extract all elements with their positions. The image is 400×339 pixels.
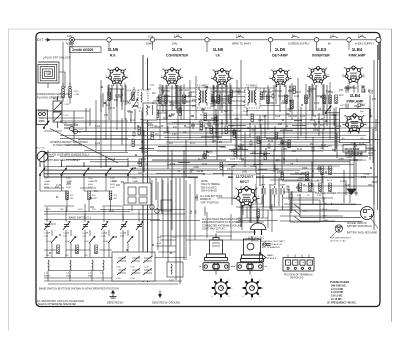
unused — [143, 103, 157, 129]
resistor bank row 1 values — [70, 195, 140, 200]
tube label U1 — [108, 47, 119, 57]
svg-text:R-24: R-24 — [202, 164, 208, 166]
svg-text:3.3M: 3.3M — [221, 103, 226, 105]
gear socket A — [212, 276, 233, 301]
svg-text:PWR.AMP: PWR.AMP — [349, 53, 367, 57]
wire loop to tube — [48, 72, 65, 88]
resistor bank row 2 — [57, 245, 98, 254]
svg-text:10K: 10K — [339, 90, 344, 92]
svg-text:1.5A: 1.5A — [174, 33, 180, 37]
svg-text:.0005: .0005 — [220, 147, 227, 149]
resistor R13 — [305, 95, 308, 104]
svg-text:1M: 1M — [281, 103, 284, 105]
tube socket U4 1LD5 — [269, 68, 291, 87]
loop antenna L-1 — [38, 56, 71, 83]
svg-text:C-9: C-9 — [362, 160, 366, 162]
inverter values — [300, 91, 332, 118]
wire rectifier outputs — [236, 197, 300, 224]
svg-text:2.2A: 2.2A — [358, 33, 364, 37]
svg-text:56K: 56K — [332, 150, 337, 152]
svg-text:T-1 456KC: T-1 456KC — [197, 85, 209, 88]
IF values — [213, 91, 249, 120]
svg-text:.0005: .0005 — [346, 157, 353, 159]
svg-text:100: 100 — [361, 105, 366, 107]
svg-text:R-17: R-17 — [198, 159, 204, 161]
svg-text:S-1B: S-1B — [66, 187, 71, 189]
svg-text:330K: 330K — [302, 168, 308, 170]
svg-text:56K: 56K — [275, 169, 280, 171]
svg-text:600KC: 600KC — [44, 276, 51, 278]
voltage callouts rotated — [191, 158, 299, 214]
svg-text:R-8: R-8 — [215, 125, 219, 127]
svg-text:WIRE TO MAST: WIRE TO MAST — [232, 42, 251, 46]
svg-text:1M: 1M — [213, 141, 216, 143]
svg-text:.01: .01 — [161, 92, 165, 94]
svg-text:.0005: .0005 — [338, 159, 345, 161]
svg-text:330: 330 — [46, 255, 50, 257]
svg-text:1LN5: 1LN5 — [213, 47, 224, 52]
svg-text:.005: .005 — [262, 116, 267, 118]
svg-text:680: 680 — [114, 100, 119, 102]
page scan edge left — [8, 29, 10, 331]
wire band column verticals right — [152, 178, 195, 260]
svg-text:C-4: C-4 — [79, 129, 83, 131]
svg-text:.01: .01 — [94, 181, 98, 183]
svg-text:C-14: C-14 — [232, 91, 238, 93]
svg-text:1LN5: 1LN5 — [108, 47, 119, 52]
coil box L-10 — [167, 262, 183, 282]
node circle on bus — [107, 38, 111, 42]
svg-text:.05: .05 — [160, 126, 164, 128]
wire mesh: main coupling network — [40, 45, 378, 284]
svg-text:FOR USE WITH EXT.: FOR USE WITH EXT. — [330, 238, 352, 240]
svg-text:1-10: 1-10 — [63, 236, 68, 238]
coil tap on bus — [328, 33, 338, 45]
det-amp drops — [268, 78, 298, 140]
svg-text:40MF: 40MF — [271, 185, 277, 187]
resistor R11 — [285, 95, 288, 104]
trimmer row 2 — [51, 236, 133, 243]
svg-text:1LD5: 1LD5 — [275, 47, 286, 52]
vibrator can part — [205, 234, 228, 261]
svg-text:C-2: C-2 — [72, 123, 76, 125]
svg-text:.006: .006 — [287, 109, 292, 111]
svg-text:600V: 600V — [66, 184, 71, 186]
fuse 1.5A on bus — [172, 33, 182, 45]
svg-text:.25: .25 — [177, 171, 181, 173]
svg-text:.002: .002 — [331, 115, 336, 117]
text antenna switch note — [50, 141, 88, 147]
wire resistors to bus — [63, 42, 70, 86]
svg-text:IN HAND HELD POSITION: IN HAND HELD POSITION — [53, 144, 82, 147]
svg-text:220: 220 — [116, 185, 121, 187]
svg-text:I.F.: I.F. — [216, 53, 221, 57]
svg-text:R-17: R-17 — [190, 143, 196, 145]
plug pin circles atop resistors — [62, 83, 80, 104]
antenna changeover switch arrow — [43, 121, 49, 129]
resistor R15 — [335, 95, 338, 104]
antenna terminal EXT — [37, 38, 50, 42]
trimmer row S-2 — [44, 222, 143, 231]
svg-text:C-28: C-28 — [230, 159, 236, 161]
node circle on bus — [314, 38, 318, 42]
svg-text:340: 340 — [191, 209, 193, 214]
tube socket U8 117Z6 — [233, 186, 260, 209]
tube socket U2 1LC6 — [161, 67, 183, 86]
switch S1e — [127, 168, 133, 176]
svg-text:C-1B: C-1B — [64, 104, 70, 106]
tube socket U5 1LE3 — [307, 66, 329, 85]
IF transformer T2 — [245, 85, 260, 109]
svg-text:C-25: C-25 — [258, 120, 264, 122]
svg-text:47K: 47K — [230, 126, 235, 128]
det values — [262, 91, 300, 118]
resistor R16 — [329, 95, 332, 104]
padder box — [112, 252, 155, 281]
svg-text:20MF: 20MF — [280, 185, 286, 187]
resistor R1 — [62, 89, 65, 98]
svg-text:.01MF: .01MF — [110, 181, 117, 183]
svg-text:BATTERY PACK(PLUG): BATTERY PACK(PLUG) — [347, 225, 372, 228]
node circle on bus — [268, 38, 272, 42]
svg-text:S-1A: S-1A — [44, 186, 49, 189]
svg-text:47K: 47K — [104, 115, 109, 117]
svg-text:C-12: C-12 — [340, 181, 346, 183]
svg-text:R-17: R-17 — [321, 145, 327, 147]
svg-text:2.2M: 2.2M — [239, 159, 244, 161]
svg-text:C-19: C-19 — [88, 178, 93, 180]
svg-text:15K: 15K — [368, 185, 373, 187]
svg-text:R-11: R-11 — [326, 91, 332, 93]
svg-text:R-23: R-23 — [327, 180, 333, 182]
svg-text:1LE3: 1LE3 — [316, 47, 327, 52]
svg-text:C-3: C-3 — [120, 89, 124, 91]
converter values — [155, 90, 201, 136]
svg-text:C-24: C-24 — [95, 126, 101, 128]
svg-text:R-15: R-15 — [74, 91, 79, 93]
svg-text:L-4 OSC: L-4 OSC — [144, 123, 153, 125]
svg-text:2.2K: 2.2K — [317, 195, 322, 197]
switch S1c — [83, 168, 89, 176]
svg-text:C-21: C-21 — [132, 178, 137, 180]
svg-text:R-5: R-5 — [94, 191, 98, 193]
svg-text:DENOTES B- GROUND: DENOTES B- GROUND — [152, 301, 180, 305]
tube label U6 — [349, 47, 367, 57]
text voltages note — [202, 218, 243, 231]
svg-text:L-2: L-2 — [139, 110, 143, 113]
phono jack box — [37, 110, 48, 125]
svg-text:.05MF: .05MF — [44, 181, 51, 183]
text pin end view — [347, 223, 372, 228]
wire trans to speaker — [350, 148, 374, 204]
wire: vertical bus pair — [143, 55, 148, 282]
svg-text:BL.K: BL.K — [323, 209, 328, 211]
svg-text:.05MF: .05MF — [132, 181, 139, 183]
tube label U5 — [312, 47, 330, 57]
svg-text:BATTERY PACK RE'D HERE: BATTERY PACK RE'D HERE — [347, 231, 377, 234]
tuning range table — [327, 281, 357, 304]
rect can part B — [241, 236, 264, 262]
flange socket A — [199, 263, 233, 271]
schematic border frame — [36, 33, 380, 307]
tube label U2 — [166, 47, 188, 57]
svg-text:3-30: 3-30 — [120, 236, 125, 238]
svg-text:1-10: 1-10 — [44, 236, 49, 238]
battery cable wires — [300, 205, 363, 222]
wire bottom mid verticals — [207, 204, 272, 240]
svg-text:C-5: C-5 — [150, 85, 154, 87]
resistor R9 — [229, 95, 232, 104]
svg-text:PLUG OFF ON LOOP: PLUG OFF ON LOOP — [45, 56, 71, 60]
svg-text:LOADING ONLY! BATT.: LOADING ONLY! BATT. — [262, 240, 286, 243]
mid value texts row — [95, 120, 342, 166]
svg-text:.02: .02 — [285, 126, 289, 128]
svg-text:.05: .05 — [120, 95, 124, 97]
resistor R7 — [183, 95, 186, 104]
svg-text:INVERTER: INVERTER — [312, 53, 330, 57]
svg-text:T-2 456KC: T-2 456KC — [246, 85, 258, 88]
svg-text:R-14: R-14 — [130, 120, 136, 122]
svg-text:220K: 220K — [336, 126, 342, 128]
resistor R4 — [132, 92, 135, 101]
svg-text:10K: 10K — [278, 124, 283, 126]
svg-text:40MF: 40MF — [260, 185, 266, 187]
svg-text:1M: 1M — [323, 103, 326, 105]
battery plug end view — [361, 207, 379, 229]
band area extra links — [44, 188, 176, 281]
svg-text:56K: 56K — [60, 209, 64, 211]
power plug P1 — [248, 217, 266, 243]
svg-text:UNLESS OTHERWISE SPECIFIED: UNLESS OTHERWISE SPECIFIED — [37, 303, 77, 306]
svg-text:R-5: R-5 — [169, 143, 173, 145]
svg-text:PACK IN PLACE OF: PACK IN PLACE OF — [262, 243, 283, 246]
RF cluster values — [103, 85, 156, 117]
tube label U3 — [213, 47, 224, 57]
svg-text:EXT: EXT — [37, 38, 43, 42]
svg-text:R-8: R-8 — [185, 90, 189, 92]
L-coil box mid — [138, 184, 147, 200]
svg-text:R-10: R-10 — [307, 91, 313, 93]
filter cap C40 — [260, 185, 266, 197]
svg-text:C-33: C-33 — [318, 119, 324, 121]
wire bus drops — [72, 42, 379, 60]
resistor R14 — [323, 95, 326, 104]
denotes B+ symbol — [107, 291, 124, 305]
svg-text:C-21: C-21 — [109, 211, 115, 213]
svg-text:1M: 1M — [183, 132, 186, 134]
svg-text:R-18: R-18 — [110, 159, 116, 161]
svg-text:SW-4 IS BASS: SW-4 IS BASS — [201, 190, 217, 193]
svg-text:SWITCH S-5: SWITCH S-5 — [290, 278, 304, 280]
svg-text:R-5: R-5 — [328, 146, 332, 148]
svg-text:470K: 470K — [92, 198, 97, 200]
svg-text:15K: 15K — [170, 105, 175, 107]
wire left links — [36, 111, 90, 157]
wire socketB stub — [249, 270, 251, 275]
terminal strip TS1 — [283, 255, 314, 272]
coil L-6 — [100, 260, 104, 275]
svg-text:10K: 10K — [227, 169, 232, 171]
tube socket U6 1LB4 — [342, 66, 364, 85]
svg-text:47: 47 — [79, 132, 82, 134]
svg-text:DIAL: DIAL — [172, 42, 178, 46]
coil L-2 box — [138, 90, 148, 113]
svg-text:RED: RED — [324, 220, 329, 222]
svg-text:100: 100 — [293, 116, 298, 118]
resistor R5 — [159, 95, 162, 104]
svg-text:.01: .01 — [288, 116, 292, 118]
pilot lamp on bus — [66, 34, 74, 46]
text volume control note — [37, 92, 70, 99]
svg-text:C-17: C-17 — [44, 178, 49, 180]
rect divider labels — [297, 180, 333, 197]
svg-text:L-5: L-5 — [88, 273, 92, 275]
tuning gang C-1 — [53, 96, 69, 128]
battery plug B1 — [330, 225, 342, 238]
svg-text:1M: 1M — [231, 151, 234, 153]
resistor R2 — [69, 89, 72, 98]
trimmer row labels — [44, 232, 127, 238]
svg-text:R-16: R-16 — [310, 120, 316, 122]
svg-text:1M: 1M — [318, 109, 321, 111]
fuse 5.3A on bus — [146, 34, 157, 45]
text loading note — [262, 240, 286, 249]
tube label U4 — [272, 47, 288, 57]
svg-text:POSITION OF TERMINALS: POSITION OF TERMINALS — [284, 274, 313, 277]
resistor R29 — [257, 209, 260, 218]
IF transformer T1 — [196, 85, 211, 109]
svg-text:C-8: C-8 — [179, 90, 183, 92]
svg-text:R-20: R-20 — [297, 180, 303, 182]
svg-text:PWR.AMP: PWR.AMP — [347, 99, 365, 103]
svg-text:PLAYING OPERATION: PLAYING OPERATION — [37, 95, 64, 99]
svg-text:.0005: .0005 — [193, 167, 200, 169]
denotes B- symbol — [152, 291, 180, 305]
svg-text:60MA: 60MA — [146, 42, 153, 46]
svg-text:1M: 1M — [206, 152, 209, 154]
svg-text:CONVERTER: CONVERTER — [166, 53, 188, 57]
svg-text:R-24: R-24 — [372, 182, 378, 184]
svg-text:I.F. FREQUENCY 455 KC.: I.F. FREQUENCY 455 KC. — [327, 301, 357, 304]
svg-text:C-40: C-40 — [164, 132, 170, 134]
svg-text:L-3: L-3 — [44, 273, 48, 275]
wire: antenna top bus — [50, 39, 377, 41]
tuning cap C-1A arrows — [126, 89, 138, 108]
svg-text:R-8: R-8 — [106, 105, 110, 107]
converter cluster drops — [160, 76, 196, 140]
switch S1a — [39, 168, 45, 176]
page scan edge right — [391, 29, 393, 322]
middle horizontal bus wires — [44, 123, 380, 175]
filter cap C41 — [271, 185, 277, 197]
svg-text:B+: B+ — [328, 42, 332, 46]
svg-text:C-40: C-40 — [368, 153, 374, 155]
svg-text:150: 150 — [84, 255, 88, 257]
svg-text:C-27: C-27 — [280, 143, 286, 145]
gear socket B — [243, 276, 264, 301]
svg-text:R-12: R-12 — [322, 98, 328, 100]
resistor R12 — [291, 100, 294, 109]
svg-text:47K: 47K — [350, 87, 355, 89]
svg-text:C-1C: C-1C — [64, 115, 70, 117]
svg-text:PIN END VIEW OF: PIN END VIEW OF — [347, 223, 367, 225]
svg-text:22K: 22K — [169, 102, 174, 104]
switch arrow tone — [325, 106, 331, 114]
svg-text:R-6: R-6 — [92, 195, 96, 197]
bus end terminal circle — [376, 37, 381, 42]
op: tube socket U1 1LN5 RF — [106, 67, 128, 86]
wire: diagonal antenna switch link — [50, 129, 118, 164]
svg-text:R-2: R-2 — [70, 195, 74, 197]
svg-text:340: 340 — [196, 209, 198, 214]
svg-text:C-9: C-9 — [369, 93, 373, 95]
IF drop wires — [214, 60, 241, 160]
wire band switch verticals row1 — [40, 159, 132, 212]
svg-text:R-24: R-24 — [268, 141, 274, 143]
svg-text:117: 117 — [297, 158, 299, 162]
svg-text:100: 100 — [224, 111, 229, 113]
svg-text:6-8V: 6-8V — [67, 34, 73, 38]
model label box Zenith 6G005 — [70, 47, 102, 53]
svg-text:R-9: R-9 — [114, 195, 118, 197]
svg-text:C-20: C-20 — [110, 178, 115, 180]
svg-text:400V: 400V — [88, 184, 93, 186]
resistor bank row 1 — [66, 191, 134, 200]
svg-text:BAND SWITCH S-1: BAND SWITCH S-1 — [69, 216, 92, 219]
rect divider resistors — [299, 183, 332, 192]
coil L-5 — [88, 260, 93, 278]
wire rect area — [217, 180, 310, 218]
svg-text:1M: 1M — [240, 148, 243, 150]
text resistor tolerance note — [37, 300, 85, 306]
tube socket U7 1LB4 redraw — [342, 114, 366, 135]
svg-text:600V: 600V — [110, 184, 115, 186]
svg-text:.01: .01 — [313, 116, 317, 118]
svg-text:C-15: C-15 — [243, 111, 249, 113]
svg-text:B+: B+ — [292, 33, 296, 37]
svg-text:27K: 27K — [92, 209, 96, 211]
svg-text:2.2M: 2.2M — [217, 142, 222, 144]
coil L-3 — [44, 260, 51, 278]
slug coil pair — [62, 123, 83, 135]
tone switch S-3 — [290, 200, 320, 222]
svg-text:C-1A: C-1A — [126, 89, 132, 92]
flange socket B — [233, 263, 267, 271]
svg-text:1500: 1500 — [66, 276, 72, 278]
svg-text:SPINDLE: SPINDLE — [267, 258, 277, 260]
svg-text:L-10: L-10 — [169, 280, 174, 282]
svg-text:R-21: R-21 — [307, 180, 313, 182]
svg-text:117Z6/GT: 117Z6/GT — [236, 174, 254, 179]
svg-text:R-31: R-31 — [141, 159, 147, 161]
svg-text:.02MF: .02MF — [66, 181, 73, 183]
svg-text:R-31: R-31 — [137, 163, 143, 165]
svg-text:470K: 470K — [200, 126, 206, 128]
svg-text:10M: 10M — [270, 103, 275, 105]
svg-text:PHONO-RADIO SWITCH IN: PHONO-RADIO SWITCH IN — [37, 92, 70, 96]
svg-text:470K: 470K — [170, 164, 176, 166]
svg-text:C-26: C-26 — [95, 143, 101, 145]
svg-text:RECT: RECT — [240, 180, 250, 184]
svg-text:R.F.: R.F. — [110, 53, 117, 57]
svg-text:R-2: R-2 — [152, 93, 156, 95]
svg-text:1M: 1M — [70, 198, 73, 200]
svg-text:3.3M: 3.3M — [74, 94, 79, 96]
inverter drops — [306, 82, 330, 140]
svg-text:.25: .25 — [232, 166, 236, 168]
page scan edge top — [8, 28, 392, 30]
svg-text:47K: 47K — [277, 172, 282, 174]
